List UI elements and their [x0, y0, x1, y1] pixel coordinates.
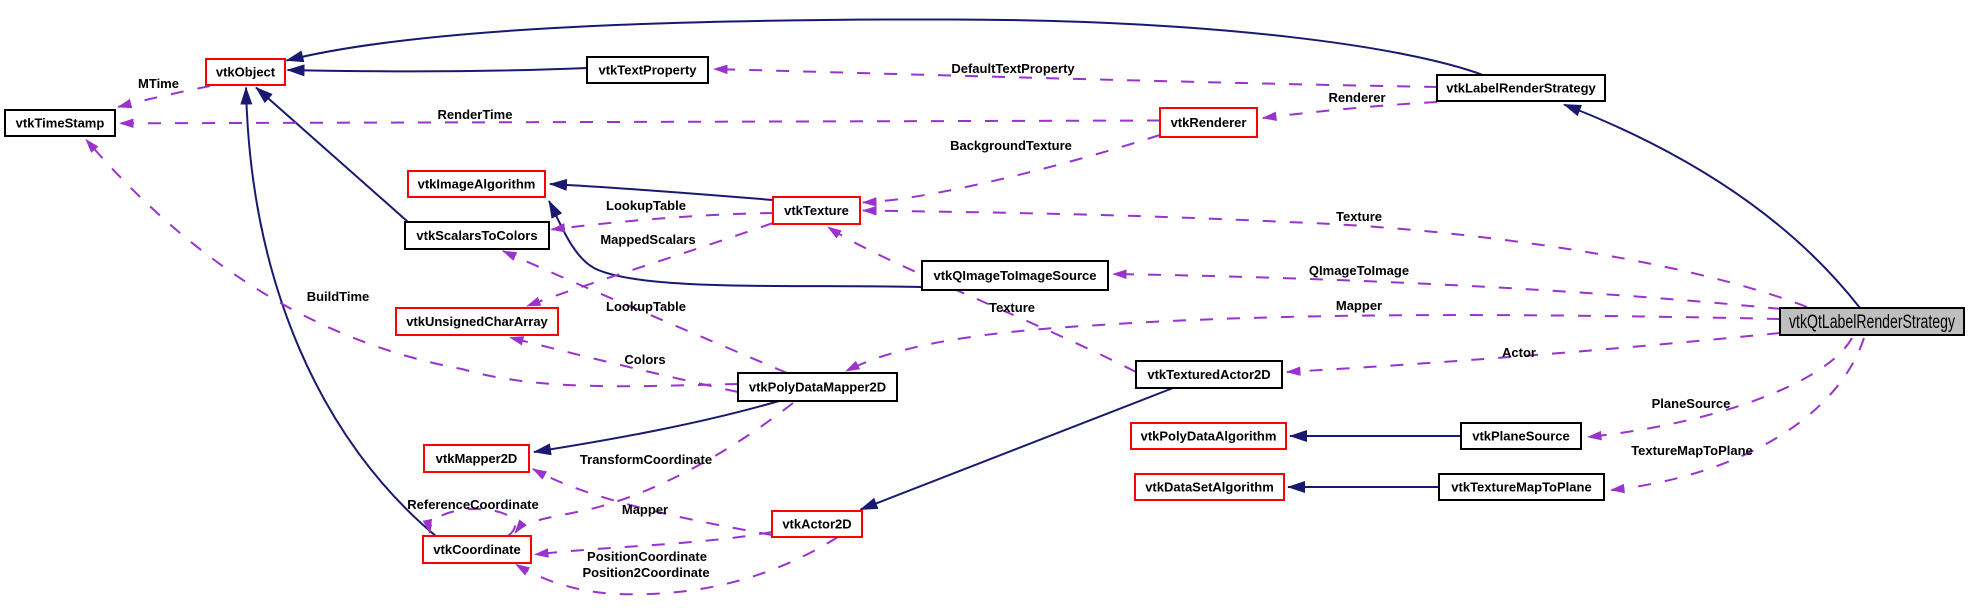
svg-text:vtkImageAlgorithm: vtkImageAlgorithm [418, 177, 536, 192]
svg-text:Actor: Actor [1502, 345, 1536, 360]
svg-text:TransformCoordinate: TransformCoordinate [580, 452, 712, 467]
svg-text:BackgroundTexture: BackgroundTexture [950, 138, 1072, 153]
wire inheritance vtkTextureMapToPlane to vtkDataSetAlgorithm [1288, 486, 1439, 488]
svg-text:vtkTextureMapToPlane: vtkTextureMapToPlane [1451, 480, 1591, 495]
wire TransformCoordinate vtkPolyDataMapper2D to vtkCoordinate [515, 403, 793, 533]
node vtkMapper2D [424, 445, 529, 472]
wire inheritance vtkTexturedActor2D to vtkActor2D [861, 388, 1174, 510]
wire inheritance vtkScalarsToColors to vtkObject [256, 88, 408, 223]
svg-text:vtkDataSetAlgorithm: vtkDataSetAlgorithm [1145, 480, 1274, 495]
svg-text:LookupTable: LookupTable [606, 198, 686, 213]
svg-text:vtkPolyDataMapper2D: vtkPolyDataMapper2D [749, 380, 886, 395]
wire BackgroundTexture vtkRenderer to vtkTexture [863, 135, 1160, 203]
wire RenderTime vtkRenderer to vtkTimeStamp [120, 121, 1160, 124]
wire BuildTime vtkPolyDataMapper2D to vtkTimeStamp [86, 140, 738, 387]
svg-text:vtkTexture: vtkTexture [784, 203, 849, 218]
svg-text:DefaultTextProperty: DefaultTextProperty [951, 61, 1075, 76]
node vtkCoordinate [423, 536, 531, 563]
svg-text:vtkTexturedActor2D: vtkTexturedActor2D [1147, 367, 1270, 382]
svg-text:vtkObject: vtkObject [216, 65, 276, 80]
svg-text:vtkQImageToImageSource: vtkQImageToImageSource [933, 268, 1096, 283]
svg-text:PositionCoordinate: PositionCoordinate [587, 549, 707, 564]
svg-text:vtkTimeStamp: vtkTimeStamp [16, 116, 105, 131]
node vtkTextureMapToPlane [1439, 474, 1604, 500]
svg-text:QImageToImage: QImageToImage [1309, 263, 1409, 278]
wire Actor vtkQtLabelRenderStrategy to vtkTexturedActor2D [1287, 333, 1780, 372]
node vtkActor2D [772, 511, 862, 537]
wire inheritance vtkQtLabelRenderStrategy to vtkLabelRenderStrategy [1564, 105, 1860, 309]
node vtkTexturedActor2D [1136, 361, 1282, 388]
node vtkRenderer [1160, 108, 1257, 137]
node vtkImageAlgorithm [408, 171, 545, 197]
svg-text:vtkRenderer: vtkRenderer [1171, 115, 1247, 130]
svg-text:Mapper: Mapper [622, 502, 668, 517]
wire inheritance vtkPolyDataMapper2D to vtkMapper2D [534, 401, 779, 452]
node vtkTextProperty [587, 57, 708, 83]
wire inheritance vtkQImageToImageSource to vtkImageAlgorithm [549, 201, 922, 287]
wire Renderer vtkLabelRenderStrategy to vtkRenderer [1263, 102, 1437, 118]
node vtkDataSetAlgorithm [1135, 474, 1284, 500]
node vtkQImageToImageSource [922, 261, 1108, 290]
wire LookupTable vtkTexture to vtkScalarsToColors [552, 213, 774, 230]
svg-text:vtkPolyDataAlgorithm: vtkPolyDataAlgorithm [1141, 429, 1277, 444]
svg-text:Texture: Texture [1336, 209, 1382, 224]
svg-text:TextureMapToPlane: TextureMapToPlane [1631, 443, 1753, 458]
wire LookupTable vtkPolyDataMapper2D to vtkScalarsToColors [503, 251, 787, 373]
node vtkTimeStamp [5, 110, 115, 136]
svg-text:LookupTable: LookupTable [606, 299, 686, 314]
wire Mapper vtkActor2D to vtkMapper2D [533, 469, 772, 535]
node vtkQtLabelRenderStrategy (current class) [1780, 308, 1964, 335]
svg-text:RenderTime: RenderTime [438, 107, 513, 122]
svg-text:Texture: Texture [989, 300, 1035, 315]
svg-text:Renderer: Renderer [1328, 90, 1385, 105]
svg-text:Position2Coordinate: Position2Coordinate [582, 565, 709, 580]
wire inheritance vtkCoordinate to vtkObject [246, 88, 437, 538]
wire MTime vtkObject to vtkTimeStamp [118, 86, 210, 107]
wire TextureMapToPlane vtkQtLabelRenderStrategy to vtkTextureMapToPlane [1611, 338, 1864, 490]
wire QImageToImage vtkQtLabelRenderStrategy to vtkQImageToImageSource [1113, 274, 1781, 309]
svg-text:vtkMapper2D: vtkMapper2D [436, 451, 518, 466]
node vtkTexture [773, 197, 860, 224]
svg-text:vtkTextProperty: vtkTextProperty [598, 63, 697, 78]
wire DefaultTextProperty vtkLabelRenderStrategy to vtkTextProperty [714, 69, 1437, 87]
svg-text:vtkLabelRenderStrategy: vtkLabelRenderStrategy [1446, 81, 1596, 96]
svg-text:MappedScalars: MappedScalars [600, 232, 695, 247]
wire Colors vtkPolyDataMapper2D to vtkUnsignedCharArray [510, 338, 738, 393]
wire inheritance vtkLabelRenderStrategy to vtkObject (top arc) [287, 19, 1484, 75]
node vtkPlaneSource [1461, 423, 1581, 449]
svg-text:vtkPlaneSource: vtkPlaneSource [1472, 429, 1570, 444]
node vtkUnsignedCharArray [396, 308, 558, 335]
svg-text:MTime: MTime [138, 76, 179, 91]
node vtkPolyDataMapper2D [738, 373, 897, 401]
svg-text:vtkActor2D: vtkActor2D [782, 517, 851, 532]
wire PlaneSource vtkQtLabelRenderStrategy to vtkPlaneSource [1588, 338, 1852, 437]
wire MappedScalars vtkTexture to vtkUnsignedCharArray [527, 223, 773, 306]
svg-text:vtkQtLabelRenderStrategy: vtkQtLabelRenderStrategy [1789, 312, 1955, 333]
svg-text:PlaneSource: PlaneSource [1652, 396, 1731, 411]
svg-text:ReferenceCoordinate: ReferenceCoordinate [407, 497, 538, 512]
wire Texture vtkQtLabelRenderStrategy to vtkTexture [863, 211, 1807, 308]
wire ReferenceCoordinate self-loop on vtkCoordinate [430, 509, 515, 536]
svg-text:vtkScalarsToColors: vtkScalarsToColors [416, 228, 537, 243]
svg-text:vtkUnsignedCharArray: vtkUnsignedCharArray [406, 314, 548, 329]
wire Texture vtkTexturedActor2D to vtkTexture [828, 227, 1136, 372]
wire inheritance vtkPlaneSource to vtkPolyDataAlgorithm [1290, 435, 1461, 437]
node vtkPolyDataAlgorithm [1131, 423, 1286, 449]
wire Position2Coordinate vtkActor2D to vtkCoordinate [516, 537, 838, 594]
node vtkObject [206, 59, 285, 85]
svg-text:vtkCoordinate: vtkCoordinate [433, 542, 520, 557]
svg-text:Colors: Colors [624, 352, 665, 367]
wire inheritance vtkTextProperty to vtkObject [288, 68, 588, 71]
svg-text:Mapper: Mapper [1336, 298, 1382, 313]
wire Mapper vtkQtLabelRenderStrategy to vtkPolyDataMapper2D [846, 315, 1780, 371]
node vtkLabelRenderStrategy [1437, 75, 1605, 101]
wire inheritance vtkTexture to vtkImageAlgorithm [550, 184, 773, 200]
wire PositionCoordinate vtkActor2D to vtkCoordinate [535, 532, 772, 555]
node vtkScalarsToColors [405, 222, 549, 249]
svg-text:BuildTime: BuildTime [307, 289, 370, 304]
